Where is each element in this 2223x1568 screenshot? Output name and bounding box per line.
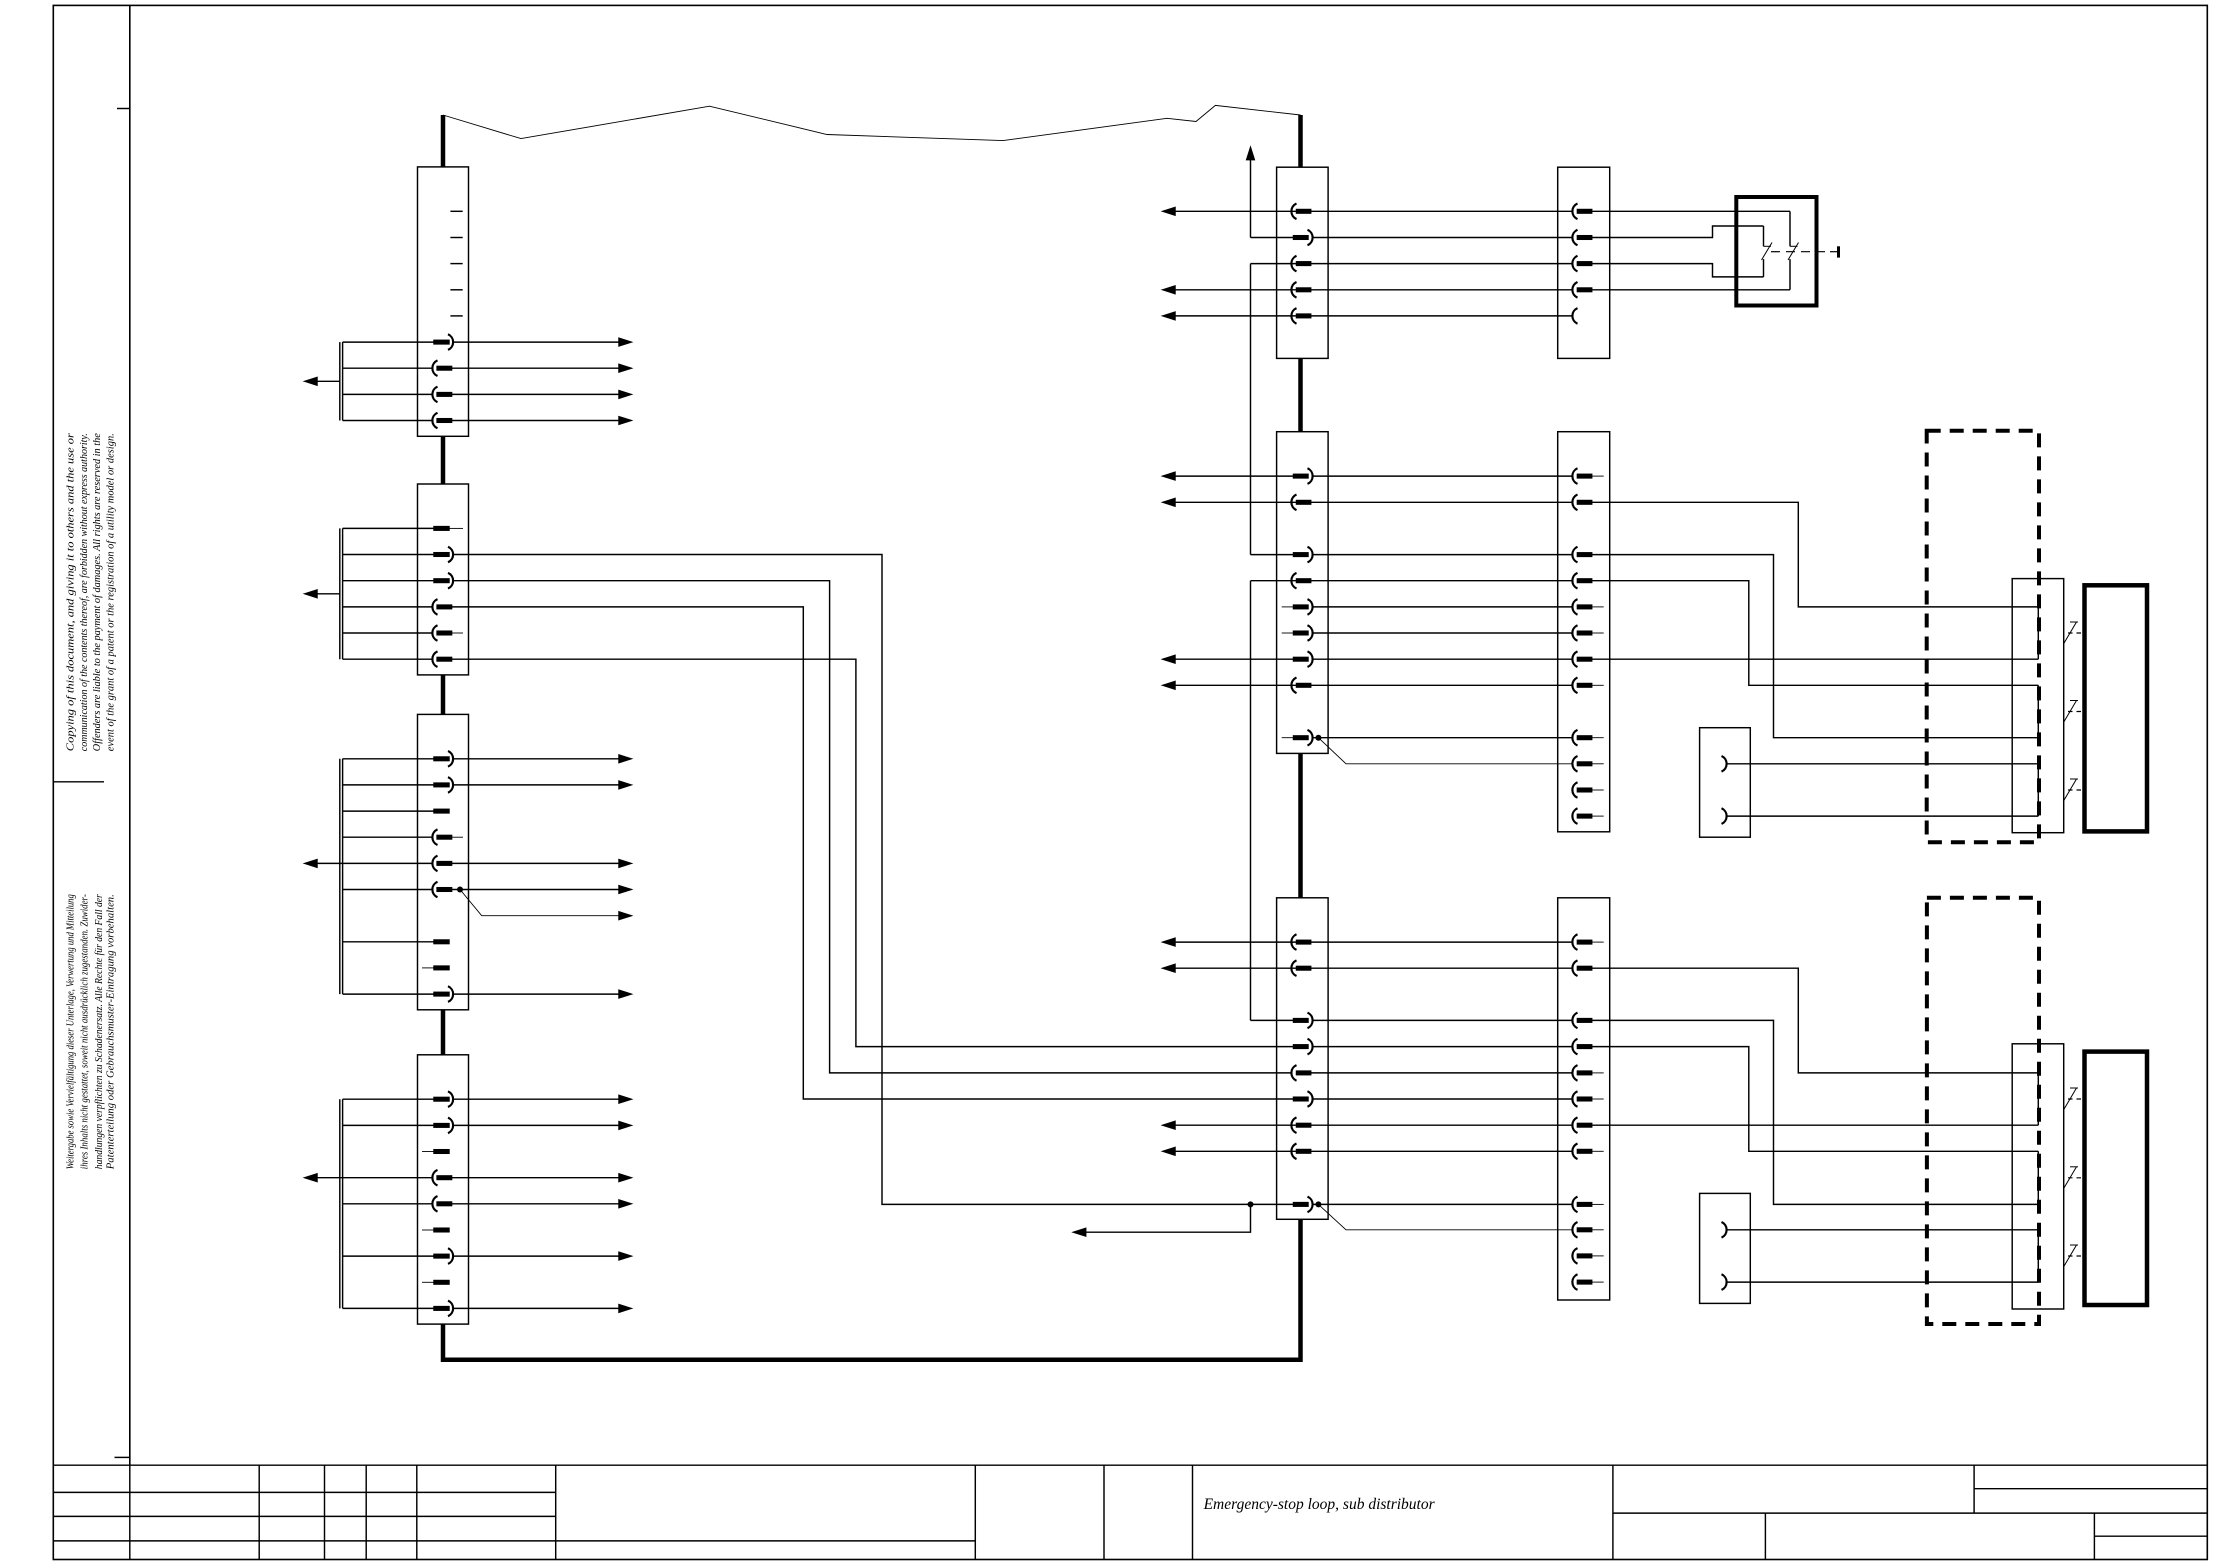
contact X5.3 <box>1291 256 1310 272</box>
wire X3.2 out with arrow <box>453 784 620 786</box>
svg-text:handlungen verpflichten zu Sch: handlungen verpflichten zu Schadenersatz… <box>94 893 105 1169</box>
wire X6.8 arrow out left <box>1174 658 1294 660</box>
contact X6.11 <box>1294 730 1313 746</box>
wire X5.4 to X8.4 <box>1311 289 1573 291</box>
pin tick 4 <box>450 289 462 291</box>
pin tick 1 <box>450 210 462 212</box>
wire X10.4 to switch B ch2 top <box>1592 1047 2039 1152</box>
wire: left trunk bus -L top <box>441 115 446 167</box>
wire X2.4 to X7.6 <box>452 607 1294 1099</box>
NC contact S3.1 <box>2064 1088 2077 1110</box>
pin tick 5 <box>450 315 462 317</box>
contact X7.3 <box>1294 1013 1313 1029</box>
TITLE BLOCK <box>53 1465 2207 1559</box>
contact X5.4 <box>1291 282 1310 298</box>
wire X4.1 out with arrow <box>453 1098 620 1100</box>
wire X4.2 out with arrow <box>453 1124 620 1126</box>
wire X5.1 arrow out left <box>1174 210 1297 212</box>
svg-text:Copying of this document, and: Copying of this document, and giving it … <box>66 432 77 751</box>
contact X7.2 <box>1291 960 1310 976</box>
long route wires X2 to X7 <box>452 555 1294 1236</box>
wire X9.2 to switch A ch1 top <box>1592 502 2039 607</box>
wire X7.5 to X10.5 <box>1311 1072 1573 1074</box>
wire X6.11 to X9.11 <box>1313 737 1572 739</box>
contact X6.7 <box>1294 625 1313 641</box>
wire X8.2 to S1 contact A top <box>1592 226 1764 238</box>
contact X3.10 <box>434 986 453 1002</box>
wire X7.4 to X10.4 <box>1313 1046 1572 1048</box>
wire X7.7 arrow out left <box>1174 1124 1297 1126</box>
wire X7.9 tap diagonal to X10.10 <box>1318 1204 1572 1229</box>
wire X10.3 to switch B ch2 bottom <box>1592 1020 2039 1204</box>
wire X9.8 to switch A ch1 bottom <box>1592 658 2039 660</box>
wire X6.6 to X9.6 <box>1313 606 1572 608</box>
wire bracket to X4.7 <box>343 1255 434 1257</box>
wire X3.5 out with arrow <box>452 862 620 864</box>
wire X5.3 riser down to X6.4 <box>1251 263 1297 265</box>
wire bracket to X2.4 <box>343 606 433 608</box>
wire XSA.1 to switch A ch3 top <box>1727 763 2039 765</box>
contact X6.6 <box>1294 599 1313 615</box>
wire: left trunk bus X2-X3 <box>441 675 446 715</box>
contact X7.5 <box>1291 1065 1310 1081</box>
terminal strip X10 <box>1558 898 1610 1300</box>
wire: left trunk bus bottom return <box>443 1219 1301 1359</box>
BUSES <box>443 115 1301 1360</box>
node: junction on X3.6 wire <box>457 887 463 893</box>
contact X3.3 <box>434 809 449 813</box>
wire bracket to X3.2 <box>343 784 434 786</box>
contact X9.7 <box>1572 625 1591 641</box>
contact X3.2 <box>434 777 453 793</box>
NC contact B <box>1789 211 1791 246</box>
contact X10.4 <box>1572 1039 1591 1055</box>
svg-text:Patenterteilung oder Gebrauchs: Patenterteilung oder Gebrauchsmuster-Ein… <box>106 894 117 1170</box>
wire X6.5 riser down to X7.3 <box>1251 580 1297 582</box>
wire X5.2 to riser arrow up <box>1251 237 1294 239</box>
wire X3.6 out with arrow <box>452 889 620 891</box>
wire X2.2 to X7.9 <box>453 555 1294 1205</box>
wire X6.4 to X9.4 <box>1313 554 1572 556</box>
contact X6.8 <box>1294 651 1313 667</box>
contact X10.3 <box>1572 1013 1591 1029</box>
contact X6.4 <box>1294 547 1313 563</box>
contact X10.2 <box>1572 960 1591 976</box>
wire bracket to X2.2 <box>343 554 434 556</box>
contact X9.4 <box>1572 547 1591 563</box>
contact X8.4 <box>1572 282 1591 298</box>
wire bracket to X2.6 <box>343 658 433 660</box>
wire riser to X6.4 <box>1251 554 1294 556</box>
wire: left trunk bus X1-X2 <box>441 436 446 484</box>
wire X7.9 to X10.9 <box>1313 1203 1572 1205</box>
contact X9.1 <box>1572 468 1591 484</box>
stub X6.6 <box>1282 606 1294 608</box>
contact X9.9 <box>1572 678 1591 694</box>
contact X7.6 <box>1294 1091 1313 1107</box>
NC contact S3.2 <box>2064 1167 2077 1189</box>
contact X3.1 <box>434 751 453 767</box>
wire X1.9 out with arrow <box>452 420 620 422</box>
wire bracket to X3.10 <box>343 993 434 995</box>
contact X4.6 <box>434 1228 449 1232</box>
contact X9.8 <box>1572 651 1591 667</box>
wire X4.5 out with arrow <box>452 1203 620 1205</box>
actuator cam B1 <box>2085 585 2148 831</box>
switch S2 contact block <box>2012 579 2064 833</box>
NC contact S2.3 <box>2064 779 2077 801</box>
wire bracket to X3.3 <box>343 810 434 812</box>
cable bracket X4 <box>339 1099 341 1308</box>
contact X9.6 <box>1572 599 1591 615</box>
contact X9.12 <box>1572 756 1591 772</box>
contact X7.7 <box>1291 1117 1310 1133</box>
NC contact A <box>1763 226 1765 246</box>
wire bracket to X4.2 <box>343 1124 434 1126</box>
contact X10.11 <box>1572 1248 1591 1264</box>
svg-text:Weitergabe sowie Vervielfältig: Weitergabe sowie Vervielfältigung dieser… <box>66 894 77 1169</box>
wire bracket to X1.8 <box>343 393 433 395</box>
wire: right trunk bus X5-X6 <box>1298 358 1303 431</box>
wire bracket to X3.8 <box>343 941 434 943</box>
contact X10.7 <box>1572 1117 1591 1133</box>
NC contact S3.3 <box>2064 1245 2077 1267</box>
contact X5.5 <box>1291 308 1310 324</box>
contact X9.5 <box>1572 573 1591 589</box>
contact X6.1 <box>1294 468 1313 484</box>
wire bracket to X2.5 <box>343 632 433 634</box>
wire XSA.2 to switch A ch3 bottom <box>1727 815 2039 817</box>
contact X10.6 <box>1572 1091 1591 1107</box>
wire X5.5 to X8.5 <box>1311 315 1573 317</box>
wire: right trunk bus top <box>1298 115 1303 167</box>
contact X7.1 <box>1291 934 1310 950</box>
contact X7.8 <box>1291 1144 1310 1160</box>
contact X9.13 <box>1572 782 1591 798</box>
contact X9.14 <box>1572 808 1591 824</box>
contact X4.8 <box>434 1281 449 1285</box>
wire: right trunk bus X6-X7 <box>1298 753 1303 897</box>
wire X7.3 to X10.3 <box>1313 1019 1572 1021</box>
wire bracket to X3.6 <box>343 889 433 891</box>
terminal strip X7 <box>1163 898 1572 1230</box>
wire X7.8 to X10.8 <box>1311 1150 1573 1152</box>
contact X3.8 <box>434 940 449 944</box>
contact X2.4 <box>432 599 451 615</box>
cable arrow X1 out <box>311 380 340 382</box>
contact X6.2 <box>1291 495 1310 511</box>
stub X6.11 <box>1282 737 1294 739</box>
push button head <box>1837 246 1840 257</box>
wire X7.8 arrow out left <box>1174 1150 1297 1152</box>
socket XSB.1 <box>1722 1222 1727 1238</box>
contact X1.9 <box>432 413 451 429</box>
contact X7.9 <box>1294 1197 1313 1213</box>
NC contact S2.2 <box>2064 701 2077 723</box>
contact X2.6 <box>432 651 451 667</box>
connector box XSB <box>1700 1193 1751 1303</box>
terminal strip X2 <box>305 484 469 675</box>
terminal strip X6 <box>1163 432 1572 1021</box>
wire X8.1 to S1 contact B top <box>1592 210 1790 212</box>
wire X5.3 to X8.3 <box>1311 263 1573 265</box>
actuator linkage <box>1771 251 1830 253</box>
pin tick 2 <box>450 237 462 239</box>
wire X7.2 arrow out left <box>1174 967 1297 969</box>
contact X1.7 <box>432 360 451 376</box>
wire X5.1 to X8.1 <box>1311 210 1573 212</box>
wire bracket to X1.6 <box>343 341 434 343</box>
cable arrow X3 out on row 5 <box>311 862 432 864</box>
wire X4.4 out with arrow <box>452 1177 620 1179</box>
wire bracket to X3.4 <box>343 836 433 838</box>
node: junction on X7.9 net <box>1248 1201 1254 1207</box>
wire X7.1 arrow out left <box>1174 941 1297 943</box>
cable bracket X2 <box>339 528 341 659</box>
pin tick 3 <box>450 263 462 265</box>
emergency stop button S1 <box>1592 197 1839 306</box>
terminal strip X8 <box>1558 167 1610 358</box>
cable arrow X4 out on row 4 <box>311 1177 432 1179</box>
cable bracket X1 <box>339 342 341 420</box>
stub X6.7 <box>1282 632 1294 634</box>
wire X6.5 to X9.5 <box>1311 580 1573 582</box>
svg-text:Emergency-stop loop, sub distr: Emergency-stop loop, sub distributor <box>1203 1496 1436 1513</box>
socket XSA.2 <box>1722 808 1727 824</box>
wire X2.3 to X7.5 <box>453 581 1292 1073</box>
contact X4.7 <box>434 1248 453 1264</box>
contact X3.6 <box>432 882 451 898</box>
wire X6.9 to X9.9 <box>1311 684 1573 686</box>
cable bracket X3 <box>339 759 341 994</box>
wire X9.4 to switch A ch2 bottom <box>1592 555 2039 738</box>
door switch area section B <box>1592 898 2147 1324</box>
contact X3.5 <box>432 856 451 872</box>
contact X2.3 <box>434 573 453 589</box>
wire X6.2 to X9.2 <box>1311 501 1573 503</box>
contact X4.9 <box>434 1301 453 1317</box>
wire X3.10 out with arrow <box>453 993 620 995</box>
contact X5.2 <box>1294 230 1313 246</box>
cable arrow X2 out <box>311 593 340 595</box>
terminal strip X5 <box>1163 148 1572 555</box>
wire X10.2 to switch B ch1 top <box>1592 968 2039 1073</box>
wire X7.6 to X10.6 <box>1313 1098 1572 1100</box>
margin copyright note (english) <box>66 432 117 751</box>
svg-text:communication of the contents: communication of the contents thereof, a… <box>79 433 90 751</box>
NC contact S2.1 <box>2064 622 2077 644</box>
wire X5.4 arrow out left <box>1174 289 1297 291</box>
wire: left trunk bus X3-X4 <box>441 1010 446 1055</box>
wire X7.7 to X10.7 <box>1311 1124 1573 1126</box>
wire X1.7 out with arrow <box>452 367 620 369</box>
svg-text:ihres Inhalts nicht gestattet,: ihres Inhalts nicht gestattet, soweit ni… <box>79 894 90 1169</box>
contact X8.3 <box>1572 256 1591 272</box>
wire X6.1 to X9.1 <box>1313 475 1572 477</box>
wire X6.8 to X9.8 <box>1313 658 1572 660</box>
wire bracket to X1.7 <box>343 367 433 369</box>
contact X1.8 <box>432 387 451 403</box>
contact X8.2 <box>1572 230 1591 246</box>
wire X7.2 to X10.2 <box>1311 967 1573 969</box>
terminal strip X3 <box>305 714 631 1009</box>
wire X6.2 arrow out left <box>1174 501 1297 503</box>
wire X6.9 arrow out left <box>1174 684 1297 686</box>
wire XSB.2 to switch B ch3 bottom <box>1727 1281 2039 1283</box>
contact X8.1 <box>1572 204 1591 220</box>
wire X5.5 arrow out left <box>1174 315 1297 317</box>
svg-text:event of the grant of a patent: event of the grant of a patent or the re… <box>105 433 116 751</box>
contact X10.10 <box>1572 1222 1591 1238</box>
wire bracket to X3.1 <box>343 758 434 760</box>
wire X10.7 to switch B ch1 bottom <box>1592 1124 2039 1126</box>
wire X5.2 to X8.2 <box>1313 237 1572 239</box>
margin copyright note (german) <box>66 893 117 1170</box>
wire X3.6 tap diagonal with arrow <box>460 890 620 916</box>
wire X2.6 to X7.4 <box>452 659 1294 1046</box>
contact X7.4 <box>1294 1039 1313 1055</box>
wire X6.1 arrow out left <box>1174 475 1294 477</box>
contact X10.8 <box>1572 1144 1591 1160</box>
contact X10.5 <box>1572 1065 1591 1081</box>
node: junction X6.11 tap <box>1315 735 1321 741</box>
wire X4.7 out with arrow <box>453 1255 620 1257</box>
cable squiggle link between trunk tops <box>443 105 1301 140</box>
svg-text:Offenders are liable to the pa: Offenders are liable to the payment of d… <box>92 433 103 751</box>
wire XSB.1 to switch B ch3 top <box>1727 1229 2039 1231</box>
wire S1 contact A bottom to X8.3 <box>1592 264 1764 277</box>
contact X6.5 <box>1291 573 1310 589</box>
contact X4.2 <box>434 1118 453 1134</box>
wire bracket to X1.9 <box>343 420 433 422</box>
wire X9.5 to switch A ch2 top <box>1592 581 2039 686</box>
contact X10.1 <box>1572 934 1591 950</box>
wire X1.8 out with arrow <box>452 393 620 395</box>
wire X6.7 to X9.7 <box>1313 632 1572 634</box>
door switch area section A <box>1592 431 2147 843</box>
contact X3.4 <box>432 829 451 845</box>
connector box XSA <box>1700 728 1751 838</box>
terminal strip X9 <box>1558 432 1610 832</box>
enclosure boundary (dashed) <box>1927 898 2039 1324</box>
contact X2.2 <box>434 547 453 563</box>
contact X2.1 <box>434 527 449 531</box>
wire riser to X7.3 <box>1251 1019 1294 1021</box>
wire bracket to X4.1 <box>343 1098 434 1100</box>
contact X1.6 <box>434 334 453 350</box>
wire bracket to X2.3 <box>343 580 434 582</box>
wire S1 contact B bottom to X8.4 <box>1592 289 1790 291</box>
socket XSA.1 <box>1722 756 1727 772</box>
terminal strip X4 <box>305 1055 631 1324</box>
wire branch to cable arrow <box>1082 1204 1251 1232</box>
contact X5.1 <box>1291 204 1310 220</box>
contact X2.5 <box>432 625 451 641</box>
wire X6.11 tap diagonal to X9.12 <box>1318 738 1572 764</box>
enclosure boundary (dashed) <box>1927 431 2039 843</box>
wire bracket to X4.5 <box>343 1203 433 1205</box>
contact X4.5 <box>432 1196 451 1212</box>
contact X4.1 <box>434 1091 453 1107</box>
contact X4.4 <box>432 1170 451 1186</box>
actuator cam B2 <box>2085 1052 2148 1305</box>
contact X3.9 <box>434 966 449 970</box>
contact X9.2 <box>1572 495 1591 511</box>
switch S3 contact block <box>2012 1044 2064 1309</box>
contact X9.11 <box>1572 730 1591 746</box>
contact X10.12 <box>1572 1274 1591 1290</box>
socket XSB.2 <box>1722 1274 1727 1290</box>
wire X3.1 out with arrow <box>453 758 620 760</box>
contact X4.3 <box>434 1150 449 1154</box>
contact X10.9 <box>1572 1197 1591 1213</box>
wire X4.9 out with arrow <box>453 1307 620 1309</box>
node: junction X7.9 tap <box>1315 1201 1321 1207</box>
wire bracket to X2.1 <box>343 527 434 529</box>
wire X7.1 to X10.1 <box>1311 941 1573 943</box>
wire bracket to X4.9 <box>343 1307 434 1309</box>
contact X6.9 <box>1291 678 1310 694</box>
wire X1.6 out with arrow <box>453 341 620 343</box>
terminal strip X1 <box>305 167 631 436</box>
contact X8.5 socket only <box>1572 308 1577 324</box>
